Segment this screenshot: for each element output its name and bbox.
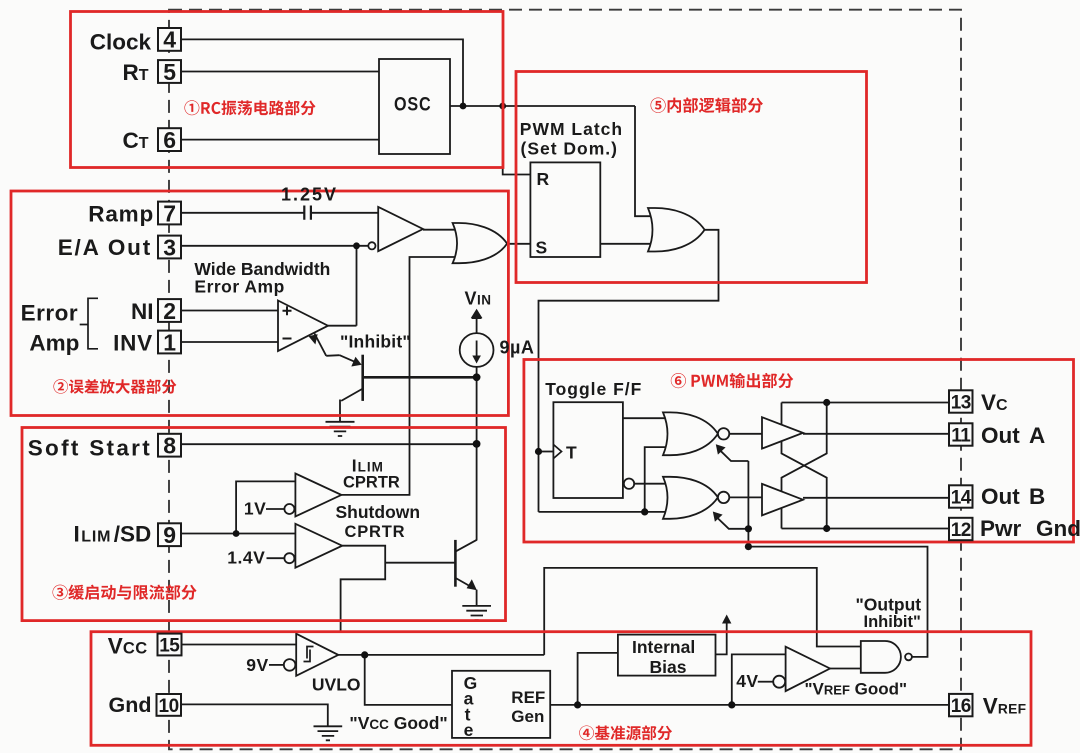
svg-text:"VREF Good": "VREF Good": [805, 680, 908, 699]
svg-text:2: 2: [163, 298, 176, 324]
svg-text:13: 13: [951, 392, 971, 413]
svg-text:3: 3: [163, 234, 176, 260]
svg-text:Shutdown: Shutdown: [336, 502, 421, 522]
svg-text:Gnd: Gnd: [109, 693, 152, 717]
svg-text:Toggle F/F: Toggle F/F: [545, 379, 642, 399]
svg-text:9µA: 9µA: [500, 337, 535, 357]
svg-text:Internal: Internal: [632, 637, 695, 657]
svg-text:REF: REF: [511, 688, 545, 707]
svg-text:10: 10: [159, 696, 179, 717]
svg-text:OutA: OutA: [981, 423, 1045, 448]
svg-text:4: 4: [163, 27, 176, 53]
svg-text:11: 11: [951, 425, 971, 446]
svg-text:Error: Error: [21, 300, 79, 325]
svg-text:7: 7: [163, 200, 176, 226]
svg-text:CPRTR: CPRTR: [343, 474, 400, 492]
svg-text:Amp: Amp: [29, 330, 79, 355]
svg-text:9V: 9V: [246, 655, 268, 675]
svg-text:T: T: [566, 443, 577, 463]
svg-text:6: 6: [163, 127, 176, 153]
svg-text:R: R: [537, 169, 551, 189]
svg-text:Gen: Gen: [511, 707, 544, 726]
svg-text:1V: 1V: [244, 499, 266, 519]
svg-text:E/A Out: E/A Out: [58, 235, 152, 260]
svg-text:Soft Start: Soft Start: [28, 435, 152, 460]
svg-text:e: e: [464, 720, 474, 740]
svg-text:OutB: OutB: [981, 484, 1045, 509]
svg-text:Clock: Clock: [90, 30, 152, 55]
svg-text:15: 15: [159, 635, 180, 656]
svg-text:CPRTR: CPRTR: [345, 523, 406, 541]
svg-text:(Set Dom.): (Set Dom.): [521, 138, 619, 158]
svg-text:8: 8: [163, 433, 176, 459]
svg-text:PWM Latch: PWM Latch: [520, 119, 623, 139]
svg-text:"Output: "Output: [856, 595, 922, 615]
svg-text:9: 9: [163, 522, 176, 548]
svg-text:INV: INV: [113, 330, 153, 355]
svg-text:Error Amp: Error Amp: [194, 276, 284, 296]
svg-text:UVLO: UVLO: [312, 675, 361, 695]
svg-text:S: S: [536, 238, 549, 258]
svg-text:14: 14: [951, 487, 972, 508]
svg-text:1: 1: [163, 329, 176, 355]
svg-text:5: 5: [163, 59, 176, 85]
svg-text:16: 16: [951, 696, 971, 717]
svg-text:1.4V: 1.4V: [227, 548, 265, 568]
svg-text:12: 12: [951, 520, 971, 541]
svg-text:1.25V: 1.25V: [281, 185, 338, 205]
svg-text:Bias: Bias: [650, 657, 687, 677]
svg-text:"Inhibit": "Inhibit": [340, 332, 411, 352]
svg-text:OSC: OSC: [394, 93, 432, 115]
svg-text:4V: 4V: [736, 671, 758, 691]
svg-text:Inhibit": Inhibit": [864, 613, 921, 631]
svg-text:Ramp: Ramp: [88, 201, 154, 226]
svg-text:NI: NI: [131, 299, 154, 324]
svg-text:"VCC Good": "VCC Good": [349, 713, 447, 733]
